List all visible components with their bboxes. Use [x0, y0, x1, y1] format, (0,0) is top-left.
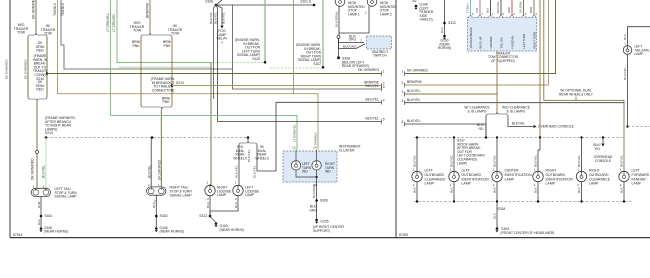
- svg-text:S101: S101: [300, 0, 308, 4]
- svg-text:BLK/YEL: BLK/YEL: [623, 67, 627, 80]
- splice dot on S318: [537, 200, 539, 202]
- wire BLK/YEL w/ optional dual rear wheels: [544, 0, 624, 173]
- trailer connector wire BLK / pin GROUND: [490, 0, 492, 16]
- trailer connector wire LT BLU / pin TRAILER BRAKE: [470, 0, 472, 16]
- wire BLK/YEL drop 3 from S108 to fog lamp relay: [216, 5, 222, 25]
- svg-text:4: 4: [402, 99, 404, 103]
- svg-text:LT GRN/YEL: LT GRN/YEL: [293, 124, 297, 142]
- wire BLK below license lamps: [210, 196, 238, 216]
- svg-text:1: 1: [383, 70, 385, 74]
- svg-text:BLK/YEL: BLK/YEL: [407, 98, 421, 102]
- wire BLK/ORG from lamp 2: [339, 6, 369, 33]
- pale green dashed continuation to S120: [211, 61, 265, 63]
- svg-text:LAMP: LAMP: [546, 182, 556, 186]
- splice S102 dot: [322, 66, 325, 69]
- page 1 border (bottom edge): [10, 237, 396, 239]
- svg-text:PNK: PNK: [162, 100, 170, 104]
- wire BLK/YEL from edge pin 5: [404, 122, 406, 126]
- wire BLK/YEL feed to CENTER IDENTIFICATION LAMP: [496, 138, 498, 172]
- svg-text:BRN: BRN: [529, 7, 533, 13]
- splice S306 dot: [315, 199, 318, 202]
- svg-text:DK GRN/RED: DK GRN/RED: [158, 159, 162, 180]
- ground G100 near horns (right tail): [155, 227, 158, 230]
- svg-text:BLK: BLK: [206, 201, 210, 208]
- wire BLK below lamp 454: [453, 182, 455, 202]
- svg-text:BLK/YEL: BLK/YEL: [365, 117, 379, 121]
- svg-text:TAN/BLK: TAN/BLK: [314, 131, 318, 145]
- wire BLK/YEL below tailgate lamp: [627, 54, 629, 126]
- splice dot on S317: [602, 136, 604, 138]
- svg-text:BLK: BLK: [492, 187, 496, 193]
- junction on clearance feed: [496, 94, 498, 112]
- splice S216 junction dot: [46, 72, 49, 75]
- wire TAN/BLK vertical 1 to instrument cluster pin 14: [58, 0, 319, 150]
- svg-text:S312: S312: [448, 21, 456, 25]
- wire diagonal from S108 up: [216, 0, 222, 5]
- svg-text:RIGHT: RIGHT: [589, 169, 601, 173]
- splice dot on S214 at license feed: [247, 136, 250, 139]
- splice S401 dot: [40, 215, 43, 218]
- lamp high mounted stop lamp 1: [335, 0, 345, 6]
- wire LT GRN/YEL vertical: [110, 0, 112, 116]
- svg-text:RED: RED: [36, 49, 44, 53]
- edge pin 4: [381, 100, 383, 104]
- page 1 border (left edge): [9, 0, 11, 238]
- svg-text:PNK: PNK: [132, 44, 140, 48]
- svg-text:(NEAR HORNS): (NEAR HORNS): [220, 228, 244, 232]
- wire BRN/PNK down to right tail lamp: [160, 109, 162, 187]
- brace merge BRN/PNK: [141, 105, 162, 109]
- wire BLK below right tail lamp: [155, 195, 157, 227]
- wire from S108 to S101: [216, 4, 314, 6]
- wire BLK/ORG to stop lamp switch pin 2: [339, 39, 365, 43]
- svg-text:B2: B2: [413, 0, 417, 3]
- svg-text:S108: S108: [205, 0, 213, 4]
- svg-text:CENTER: CENTER: [505, 169, 520, 173]
- svg-text:(NEAR HORNS): (NEAR HORNS): [160, 229, 184, 233]
- wire BLK/YEL vertical to S317 (tail lps feed): [539, 0, 541, 138]
- wire LT GRN/YEL vertical 2 to splice S120: [117, 0, 211, 62]
- svg-text:BRN/PNK: BRN/PNK: [146, 2, 150, 18]
- ground G100 near horns (page 2): [443, 35, 446, 38]
- svg-text:YEL: YEL: [478, 127, 484, 131]
- svg-text:TRAILER BRAKE: TRAILER BRAKE: [469, 27, 473, 48]
- svg-text:BLK/YEL: BLK/YEL: [222, 12, 226, 24]
- svg-text:BLK: BLK: [577, 187, 581, 193]
- svg-text:BLK/YEL: BLK/YEL: [496, 1, 500, 13]
- svg-text:IND: IND: [302, 170, 308, 174]
- wire BLK below lamp 624: [623, 182, 625, 202]
- wire BLK/YEL feed to LEFT OUTBOARD IDENTIFICATION LAMP: [453, 138, 455, 172]
- brace split for trailer tow options: [35, 33, 37, 34]
- svg-text:BLK: BLK: [492, 212, 496, 219]
- svg-text:CONSOLE: CONSOLE: [595, 159, 612, 163]
- svg-text:BLK/YEL: BLK/YEL: [213, 12, 217, 24]
- svg-text:LAMP: LAMP: [217, 193, 227, 197]
- svg-text:S102: S102: [313, 62, 321, 66]
- lamp high mounted stop lamp 2: [367, 0, 377, 6]
- svg-text:OUTBOARD: OUTBOARD: [425, 173, 445, 177]
- svg-text:OVERHEAD CONSOLE: OVERHEAD CONSOLE: [538, 125, 575, 129]
- wire TAN/BLK vertical 2: [61, 0, 233, 69]
- arrow down overhead console: [601, 144, 604, 147]
- wire w/o dual to left license lamp: [238, 145, 240, 186]
- svg-text:YEL: YEL: [594, 147, 600, 151]
- ground G100 near horns: [40, 227, 43, 230]
- inline connector on left tail feed: [36, 151, 39, 154]
- wire BLK/YEL to left tail lamp: [45, 138, 47, 189]
- svg-text:TAN/BLK: TAN/BLK: [61, 2, 65, 16]
- svg-text:CLUSTER: CLUSTER: [339, 148, 355, 152]
- trailer connector wire BRN / pin RIGHT TURN: [533, 0, 535, 16]
- splice S120 dot: [264, 61, 267, 64]
- wire corner top right: [628, 27, 650, 46]
- trailer connector wire VIO / pin BACK-UP: [479, 0, 481, 16]
- svg-text:S306: S306: [320, 199, 328, 203]
- svg-text:OUTBOARD: OUTBOARD: [589, 173, 609, 177]
- lamp left tail/stop & turn signal (dual filament): [31, 188, 50, 196]
- instrument cluster dashed box: [283, 151, 337, 182]
- ground G205 i/p right center support: [315, 219, 318, 222]
- svg-text:S402: S402: [160, 214, 168, 218]
- svg-text:FENDER: FENDER: [632, 177, 647, 181]
- svg-text:87920: 87920: [399, 233, 408, 237]
- svg-text:BLK/ORG: BLK/ORG: [335, 13, 339, 27]
- svg-text:GROUND: GROUND: [489, 36, 493, 48]
- svg-text:LAMP 1: LAMP 1: [348, 12, 360, 16]
- svg-text:BLK/YEL: BLK/YEL: [42, 165, 46, 178]
- wire w/ dual rear wheels to edge pin 4: [257, 102, 276, 171]
- svg-text:LAMP: LAMP: [245, 193, 255, 197]
- svg-text:5: 5: [402, 120, 404, 124]
- svg-text:5: 5: [383, 118, 385, 122]
- svg-text:LAMP 2: LAMP 2: [380, 12, 392, 16]
- arrow to overhead console: [534, 125, 537, 128]
- connector circle CHMSL junction: [337, 36, 340, 39]
- svg-text:BLK: BLK: [449, 187, 453, 193]
- lamp right license: [205, 185, 215, 195]
- splice dot on S317: [453, 136, 455, 138]
- lamp RIGHT OUTBOARD CLEARANCE LAMP: [576, 171, 586, 181]
- svg-text:BLK/YEL: BLK/YEL: [148, 165, 152, 178]
- svg-text:LAMP: LAMP: [505, 177, 515, 181]
- splice S402 dot: [155, 215, 158, 218]
- wire from S214 to dual wheels brace: [247, 138, 249, 142]
- svg-text:BLK/YEL: BLK/YEL: [533, 155, 537, 167]
- brace merge of trailer tow options: [28, 97, 37, 101]
- svg-text:4: 4: [383, 99, 385, 103]
- svg-text:2: 2: [402, 81, 404, 85]
- wire branch w/ trailer tow BRN/PNK: [171, 37, 173, 105]
- svg-text:REAR SPEAKER): REAR SPEAKER): [342, 64, 369, 68]
- svg-text:IDENTIFICATION: IDENTIFICATION: [462, 177, 490, 181]
- splice dot on S214 at left tail feed: [45, 136, 48, 139]
- svg-text:S313: S313: [199, 214, 207, 218]
- svg-text:87919: 87919: [13, 233, 22, 237]
- splice S313 dot: [209, 215, 212, 218]
- svg-text:DK GRN/RED: DK GRN/RED: [31, 158, 35, 180]
- svg-text:BACK-UP: BACK-UP: [478, 36, 482, 48]
- svg-text:RIGHT TURN: RIGHT TURN: [532, 32, 536, 49]
- svg-text:BLK: BLK: [533, 187, 537, 193]
- wire w/o clearance branch to overhead console: [508, 116, 533, 127]
- lamp LEFT OUTBOARD CLEARANCE LAMP: [412, 171, 422, 181]
- wire BLK/ORG lower to switch: [339, 39, 366, 49]
- ground G108 left fender side shield: [415, 5, 418, 8]
- svg-text:FORWARD: FORWARD: [632, 173, 650, 177]
- svg-text:FUSED B+: FUSED B+: [510, 35, 514, 49]
- page 2 border (left edge): [395, 0, 397, 238]
- svg-text:BLK/YEL: BLK/YEL: [492, 155, 496, 167]
- wire BLK/YEL drop 1 from S108: [214, 5, 217, 99]
- brace split trailer tow options BRN/PNK: [149, 33, 151, 34]
- splice dot and dashed branch: [626, 125, 628, 127]
- svg-text:CLEARANCE: CLEARANCE: [425, 177, 447, 181]
- svg-text:LT GRN/YEL: LT GRN/YEL: [112, 13, 116, 32]
- svg-text:OUTBOARD: OUTBOARD: [462, 173, 482, 177]
- svg-text:LT GRN/YEL: LT GRN/YEL: [106, 13, 110, 32]
- svg-text:G205: G205: [321, 220, 329, 224]
- svg-text:RED: RED: [507, 7, 511, 13]
- svg-text:DK GRN/RED: DK GRN/RED: [358, 68, 379, 72]
- svg-text:LAMP: LAMP: [462, 182, 472, 186]
- svg-text:14: 14: [313, 146, 317, 150]
- wire BLK below lamp 497: [496, 182, 498, 202]
- wire BLK/YEL to right tail lamp: [150, 138, 152, 187]
- svg-text:BLK/ORG: BLK/ORG: [312, 184, 316, 198]
- svg-text:BLK: BLK: [485, 7, 489, 13]
- svg-text:LAMP): LAMP): [457, 161, 467, 165]
- splice dot on S318: [580, 200, 582, 202]
- splice dot on S317: [539, 136, 541, 138]
- svg-text:3: 3: [383, 85, 385, 89]
- wire LT GRN/YEL run to instrument cluster pin 12: [111, 116, 298, 150]
- svg-text:S120: S120: [252, 57, 260, 61]
- svg-text:BLK/YEL: BLK/YEL: [512, 122, 525, 126]
- svg-text:REAR WHEELS ONLY: REAR WHEELS ONLY: [559, 92, 594, 96]
- indicator right turn lamp: [312, 161, 321, 170]
- svg-text:DK GRN/RED: DK GRN/RED: [32, 0, 36, 19]
- svg-text:S214: S214: [45, 131, 53, 135]
- svg-text:S401: S401: [45, 214, 53, 218]
- edge pin 2: [381, 83, 383, 87]
- svg-text:LEFT: LEFT: [462, 169, 471, 173]
- lamp RIGHT OUTBOARD IDENTIFICATION LAMP: [533, 171, 543, 181]
- splice dot on S214 at right tail feed: [151, 136, 154, 139]
- svg-text:IDENTIFICATION: IDENTIFICATION: [546, 177, 574, 181]
- wire BLK below left tail lamp: [40, 197, 42, 227]
- svg-text:S318: S318: [498, 207, 506, 211]
- svg-text:VIO: VIO: [475, 7, 479, 13]
- wire BLK/YEL from trailer connector ground pin down: [496, 51, 498, 94]
- svg-text:BLK/YEL: BLK/YEL: [209, 12, 213, 24]
- svg-text:WHEELS: WHEELS: [233, 156, 247, 160]
- wire joining indicator grounds: [296, 170, 317, 177]
- svg-text:BLK: BLK: [623, 33, 627, 40]
- wire LT GRN vertical to S120: [264, 0, 266, 62]
- svg-text:BLK: BLK: [234, 201, 238, 208]
- svg-text:(IF EQUIPPED): (IF EQUIPPED): [491, 59, 514, 63]
- svg-text:BLK/YEL: BLK/YEL: [577, 155, 581, 167]
- svg-text:BRN/PNK: BRN/PNK: [407, 80, 423, 84]
- svg-text:LT BLU: LT BLU: [465, 4, 469, 13]
- splice S108 junction dot: [215, 4, 218, 7]
- svg-text:HORNS): HORNS): [438, 46, 451, 50]
- svg-text:TAN/BLK: TAN/BLK: [53, 2, 57, 16]
- trailer connector wire DK GRN / pin LEFT TURN: [523, 0, 525, 16]
- wire BRN/PNK run to edge pin 2: [172, 85, 381, 87]
- splice dot on S317: [496, 136, 498, 138]
- svg-text:& ID LAMPS: & ID LAMPS: [468, 109, 487, 113]
- junction dot indicators ground: [316, 176, 318, 178]
- splice S318 dashed line: [414, 201, 631, 203]
- wire BLK/YEL run to edge pin 5: [218, 121, 382, 123]
- svg-text:SWITCH: SWITCH: [373, 54, 387, 58]
- svg-text:12: 12: [292, 146, 296, 150]
- wire BLK/YEL from edge pin 4: [404, 101, 406, 105]
- svg-text:BLK/YEL: BLK/YEL: [412, 155, 416, 167]
- svg-text:ORG: ORG: [309, 208, 317, 212]
- splice dot on S317: [580, 136, 582, 138]
- splice S214 dashed line: [46, 137, 248, 139]
- ground G303 front center of headliner: [496, 227, 499, 230]
- svg-text:LAMP: LAMP: [635, 52, 644, 56]
- svg-text:BLK/YEL: BLK/YEL: [449, 155, 453, 167]
- svg-text:DK GRN/RED: DK GRN/RED: [5, 59, 9, 79]
- splice S213 junction dot: [171, 84, 174, 87]
- splice S317 dashed line: [414, 137, 624, 139]
- wire DK GRN/RED vertical feed: [35, 0, 37, 33]
- wire BLK/ORG from lamp 1: [338, 6, 340, 36]
- svg-text:SIGNAL LAMP: SIGNAL LAMP: [170, 193, 193, 197]
- wire LT GRN/YEL to splice S102: [119, 66, 212, 68]
- trailer tow connector dashed box: [468, 18, 537, 52]
- lamp right tail/stop & turn signal (dual filament): [147, 187, 166, 195]
- wire branch w/ trailer tow: [46, 37, 48, 97]
- wire BLK/YEL run to edge pin 4: [276, 101, 381, 103]
- brace split clearance lamps options: [496, 112, 498, 113]
- svg-text:SIGNAL LAMP: SIGNAL LAMP: [55, 195, 78, 199]
- svg-text:BLK/YEL: BLK/YEL: [365, 84, 379, 88]
- wire BLK to G100: [444, 0, 446, 35]
- svg-text:BLK: BLK: [152, 201, 156, 208]
- svg-text:3: 3: [402, 90, 404, 94]
- edge pin 1: [381, 71, 383, 75]
- svg-text:BLK/YEL: BLK/YEL: [235, 165, 239, 178]
- svg-text:DK GRN/RED: DK GRN/RED: [407, 69, 428, 73]
- wire BLK/YEL drop from S101 line to edge pin 3: [233, 5, 382, 89]
- wire branch w/o trailer tow: [27, 37, 29, 97]
- wire BLK/YEL drop 2 from S108: [216, 5, 218, 122]
- brace split dual rear wheels: [247, 141, 249, 142]
- svg-text:BLK/YEL: BLK/YEL: [407, 119, 421, 123]
- svg-text:SHIELD): SHIELD): [420, 18, 433, 22]
- svg-text:LAMP: LAMP: [425, 182, 435, 186]
- svg-text:IND: IND: [325, 170, 331, 174]
- svg-text:DK GRN: DK GRN: [518, 2, 522, 13]
- svg-text:BLK: BLK: [440, 26, 444, 33]
- wire BLK below lamp 581.5: [581, 182, 583, 202]
- wire BLK/YEL feed to LEFT OUTBOARD CLEARANCE LAMP: [416, 138, 418, 172]
- pale green dashed continuation to S102: [270, 67, 323, 69]
- svg-text:BLK: BLK: [37, 218, 41, 225]
- svg-text:(FRONT CENTER OF HEADLINER): (FRONT CENTER OF HEADLINER): [501, 231, 555, 235]
- arrow to fog lamp relay: [220, 26, 223, 29]
- ground G100 near horns (license): [210, 217, 216, 223]
- svg-text:BLK/YEL: BLK/YEL: [247, 149, 251, 162]
- wire TAN/BLK drop from top: [293, 0, 295, 94]
- wire DK GRN/RED to left tail lamp: [36, 101, 38, 151]
- splice dot on S317: [416, 136, 418, 138]
- splice S308 square: [337, 57, 340, 60]
- wire BLK/YEL from edge pin 3: [404, 92, 406, 96]
- svg-text:CLEARANCE: CLEARANCE: [589, 177, 611, 181]
- wire BLK below lamp 538: [537, 182, 539, 202]
- edge pin 5: [381, 119, 383, 123]
- trailer connector wire RED / pin FUSED B+: [511, 0, 513, 16]
- edge pin 3: [381, 87, 383, 91]
- svg-text:& ID LAMPS: & ID LAMPS: [507, 109, 526, 113]
- svg-text:S213: S213: [176, 81, 184, 85]
- svg-text:TOW: TOW: [133, 29, 142, 33]
- indicator left turn lamp: [291, 161, 300, 170]
- lamp LEFT FORWARD FENDER LAMP: [619, 171, 629, 181]
- svg-text:BLK/YEL: BLK/YEL: [365, 98, 379, 102]
- svg-text:BLK: BLK: [412, 187, 416, 193]
- svg-text:LEFT TURN: LEFT TURN: [522, 34, 526, 49]
- svg-text:ORG: ORG: [349, 38, 357, 42]
- svg-text:IDENTIFICATION: IDENTIFICATION: [505, 173, 533, 177]
- svg-text:1: 1: [221, 40, 223, 44]
- trailer connector wire BLK/YEL / pin TAIL LPS: [500, 0, 502, 16]
- wire BLK/YEL feed to RIGHT OUTBOARD CLEARANCE LAMP: [581, 138, 583, 172]
- splice dot on S318: [416, 200, 418, 202]
- splice dot on S318: [623, 200, 625, 202]
- svg-text:OUTBOARD: OUTBOARD: [546, 173, 566, 177]
- wire olive vertical to right license lamp: [210, 62, 212, 185]
- svg-text:BLK/ORG: BLK/ORG: [343, 44, 357, 48]
- svg-text:DK GRN/RED: DK GRN/RED: [24, 59, 28, 79]
- lamp LEFT OUTBOARD IDENTIFICATION LAMP: [449, 171, 459, 181]
- svg-text:BLK: BLK: [37, 201, 41, 208]
- splice dot on S318: [453, 200, 455, 202]
- svg-text:RIGHT: RIGHT: [546, 169, 558, 173]
- svg-text:BLK/YEL: BLK/YEL: [619, 155, 623, 167]
- wire BLK/YEL feed to RIGHT OUTBOARD IDENTIFICATION LAMP: [538, 138, 540, 172]
- splice S312 dot: [443, 22, 446, 25]
- tick above S101: [309, 0, 311, 3]
- lamp CENTER IDENTIFICATION LAMP: [492, 171, 502, 181]
- wire w/ clearance branch to S317: [485, 116, 487, 138]
- svg-text:LAMP: LAMP: [589, 182, 599, 186]
- wire DK GRN/RED run to edge pin 1: [47, 73, 381, 75]
- splice S101 dot: [313, 4, 316, 7]
- wire DK GRN/RED from edge pin 1: [404, 71, 406, 75]
- svg-text:TOW: TOW: [17, 31, 26, 35]
- splice dot on S318: [496, 200, 498, 202]
- svg-text:RED: RED: [36, 88, 44, 92]
- svg-text:(NEAR HORNS): (NEAR HORNS): [44, 229, 68, 233]
- wire BLK/ORG down to S308: [338, 39, 340, 58]
- svg-text:CONNECTOR): CONNECTOR): [152, 88, 175, 92]
- svg-text:TOW: TOW: [171, 32, 180, 36]
- wire from S317 down to overhead console arrow: [602, 138, 604, 144]
- lamp left tailgate: [623, 46, 632, 55]
- svg-text:LEFT: LEFT: [632, 169, 641, 173]
- svg-text:BLK/YEL: BLK/YEL: [407, 89, 421, 93]
- svg-text:1: 1: [402, 70, 404, 74]
- svg-text:SUPPORT): SUPPORT): [313, 229, 330, 233]
